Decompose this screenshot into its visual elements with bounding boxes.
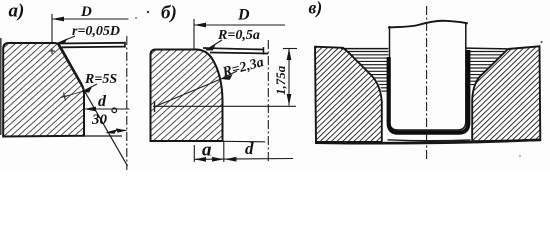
a left arrowhead [194, 157, 206, 162]
R=5S leader arrowhead [82, 87, 93, 93]
R=2,3a leader line [221, 71, 237, 79]
r=0,05D leader line [58, 36, 75, 43]
R=5S center connector [65, 92, 82, 97]
svg-text:D: D [237, 7, 250, 24]
die left part fig c (hatched) [315, 47, 382, 142]
scan speck below figC [519, 155, 521, 157]
scan speck near b label [147, 11, 149, 13]
d dimension arrowhead [84, 107, 96, 112]
die bottom extension line [84, 135, 122, 137]
D dimension arrowhead [194, 23, 206, 28]
svg-text:б): б) [161, 3, 177, 24]
blank end cap [124, 42, 126, 48]
die cross-section fig b (hatched) [151, 50, 223, 142]
d dimension line [84, 108, 130, 110]
scan speck top right [541, 41, 543, 43]
centerline fig b [267, 40, 269, 163]
D dimension arrowhead [52, 17, 64, 22]
funnel shading left (fine horizontal lines) [348, 52, 389, 92]
die right part fig c (hatched) [472, 46, 540, 141]
blank end cap [263, 47, 265, 55]
1,75a bottom arrowhead [287, 94, 292, 106]
30 deg construction line [58, 45, 128, 166]
centerline fig a [126, 36, 128, 170]
svg-text:в): в) [309, 0, 323, 18]
1,75a dimension line [288, 49, 290, 106]
blank sheet top line [203, 48, 264, 50]
degree circle [112, 108, 117, 113]
die cross-section fig a (hatched) [3, 43, 84, 137]
punch top break line [388, 21, 468, 28]
svg-text:R=5S: R=5S [84, 72, 117, 87]
punch body outline [390, 24, 466, 131]
R=2,3a radius line [155, 79, 221, 107]
angle arc left arrowhead [106, 129, 117, 134]
angle arc [107, 130, 127, 133]
angle arc right arrowhead [116, 128, 127, 133]
D dimension line [52, 18, 129, 20]
R=0,5a leader arrowhead [206, 45, 216, 51]
scan speck right of figA D line [135, 17, 137, 19]
svg-text:r=0,05D: r=0,05D [72, 24, 120, 39]
drawn cup (thick outline) [389, 50, 469, 133]
svg-text:D: D [80, 4, 92, 20]
blank sheet bottom line [210, 53, 268, 54]
d left arrowhead [225, 157, 237, 162]
D dimension line [194, 24, 285, 26]
funnel shading right (fine horizontal lines) [466, 52, 506, 85]
a-d dimension line [194, 158, 293, 161]
a dim extension line left [193, 145, 195, 162]
R=5S center mark [61, 93, 69, 101]
R=5S leader line [83, 84, 98, 92]
1,75a top arrowhead [287, 49, 292, 61]
R=0,5a leader line [206, 40, 222, 50]
D dimension extension line [51, 14, 53, 43]
a right arrowhead [212, 157, 224, 162]
r=0,05D leader arrowhead [57, 38, 68, 43]
svg-text:R=0,5a: R=0,5a [217, 28, 260, 43]
bottom edge extension line [223, 140, 265, 143]
blank sheet top line [57, 42, 125, 45]
svg-text:d: d [98, 93, 107, 110]
svg-text:30: 30 [91, 112, 108, 128]
arc center horizontal line [153, 105, 296, 107]
scan artifact left edge [0, 38, 2, 135]
die bottom line [315, 140, 541, 143]
blank sheet bottom line [62, 46, 125, 49]
r center mark [49, 48, 55, 54]
R=2,3a arrowhead [221, 75, 233, 80]
centerline fig c [426, 6, 428, 161]
die top surface line left of cavity [341, 48, 388, 50]
1,75a top tick [283, 48, 297, 50]
a dim extension line right [223, 141, 225, 162]
cavity bottom thin line [388, 139, 471, 142]
svg-text:d: d [245, 139, 254, 158]
svg-text:а): а) [9, 1, 25, 22]
arc center tick [154, 101, 156, 112]
die top surface line right of cavity [466, 47, 507, 50]
svg-text:1,75a: 1,75a [273, 65, 288, 95]
svg-text:a: a [202, 140, 212, 161]
D dimension extension line [193, 19, 195, 49]
